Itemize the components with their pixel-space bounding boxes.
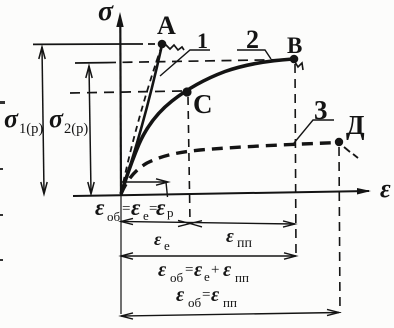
dimension sigma1(p) [39, 47, 47, 194]
eps_ob = eps_pp text [176, 284, 237, 310]
vertical dashed from C [188, 97, 190, 222]
epsilon axis [73, 188, 371, 196]
rupture dashes at D [344, 147, 358, 158]
small strain arrow near origin [121, 179, 168, 185]
svg-text:Д: Д [346, 110, 365, 140]
vertical dashed from B [295, 64, 296, 256]
eps_e segment label [154, 229, 170, 253]
svg-text:C: C [193, 89, 213, 119]
curve 1 solid [121, 45, 162, 193]
eps_pp segment label [226, 226, 252, 251]
sigma2(p) label [49, 104, 88, 137]
dimension row A [121, 218, 295, 227]
svg-text:об: об [107, 209, 121, 224]
svg-text:об: об [170, 270, 184, 285]
dimension row C [121, 309, 339, 319]
svg-text:ε: ε [226, 226, 234, 247]
leader 3 [294, 120, 334, 143]
svg-text:е: е [204, 269, 210, 284]
svg-text:пп: пп [237, 236, 252, 251]
level line B (sigma2) [75, 60, 290, 64]
level line A (sigma1) [33, 43, 158, 45]
svg-text:2(р): 2(р) [64, 121, 88, 137]
svg-text:р: р [167, 205, 174, 220]
vertical dashed from D [339, 147, 340, 313]
leader 2 [237, 50, 271, 59]
point D [335, 138, 343, 146]
svg-text:1: 1 [197, 28, 208, 53]
point B [290, 55, 299, 64]
sigma axis [116, 12, 123, 195]
point C [182, 87, 191, 96]
svg-text:1(р): 1(р) [19, 121, 43, 137]
curve 1 unloading dashed [121, 45, 162, 193]
point A [158, 40, 167, 49]
rupture squiggle at B [295, 62, 303, 70]
svg-text:A: A [157, 11, 176, 40]
svg-text:σ: σ [98, 0, 114, 27]
svg-text:+: + [211, 262, 219, 278]
svg-text:пп: пп [223, 295, 237, 310]
eps_ob = eps_e + eps_pp text [158, 259, 249, 285]
curve 3 dashed [121, 143, 339, 195]
dimension row B [121, 253, 296, 259]
svg-text:=: = [122, 201, 130, 217]
svg-text:σ: σ [49, 104, 64, 133]
sigma axis extension below origin [120, 195, 122, 314]
rupture squiggle at A [165, 44, 184, 50]
svg-text:ε: ε [380, 174, 391, 203]
svg-text:ε: ε [211, 284, 220, 306]
eps_ob = eps_e = eps_p text [95, 195, 174, 224]
svg-text:е: е [164, 238, 170, 253]
svg-text:ε: ε [154, 229, 162, 249]
svg-text:=: = [202, 287, 210, 303]
svg-text:ε: ε [194, 259, 203, 281]
svg-text:ε: ε [176, 284, 185, 306]
dimension sigma2(p) [86, 66, 94, 194]
svg-text:σ: σ [4, 104, 19, 133]
leader 1 [160, 50, 210, 76]
svg-text:ε: ε [156, 195, 166, 220]
level line C dashed [70, 91, 182, 93]
svg-text:B: B [287, 33, 302, 58]
svg-text:ε: ε [158, 259, 167, 281]
scan specks left margin [0, 101, 5, 261]
svg-text:об: об [188, 295, 202, 310]
svg-text:пп: пп [235, 270, 249, 285]
vertical dashed at eps_p tick [166, 182, 168, 197]
svg-text:=: = [185, 262, 193, 278]
sigma1(p) label [4, 104, 43, 137]
svg-text:ε: ε [95, 195, 105, 220]
svg-text:ε: ε [131, 195, 141, 220]
svg-text:ε: ε [223, 259, 232, 281]
curve 2 [121, 59, 293, 194]
